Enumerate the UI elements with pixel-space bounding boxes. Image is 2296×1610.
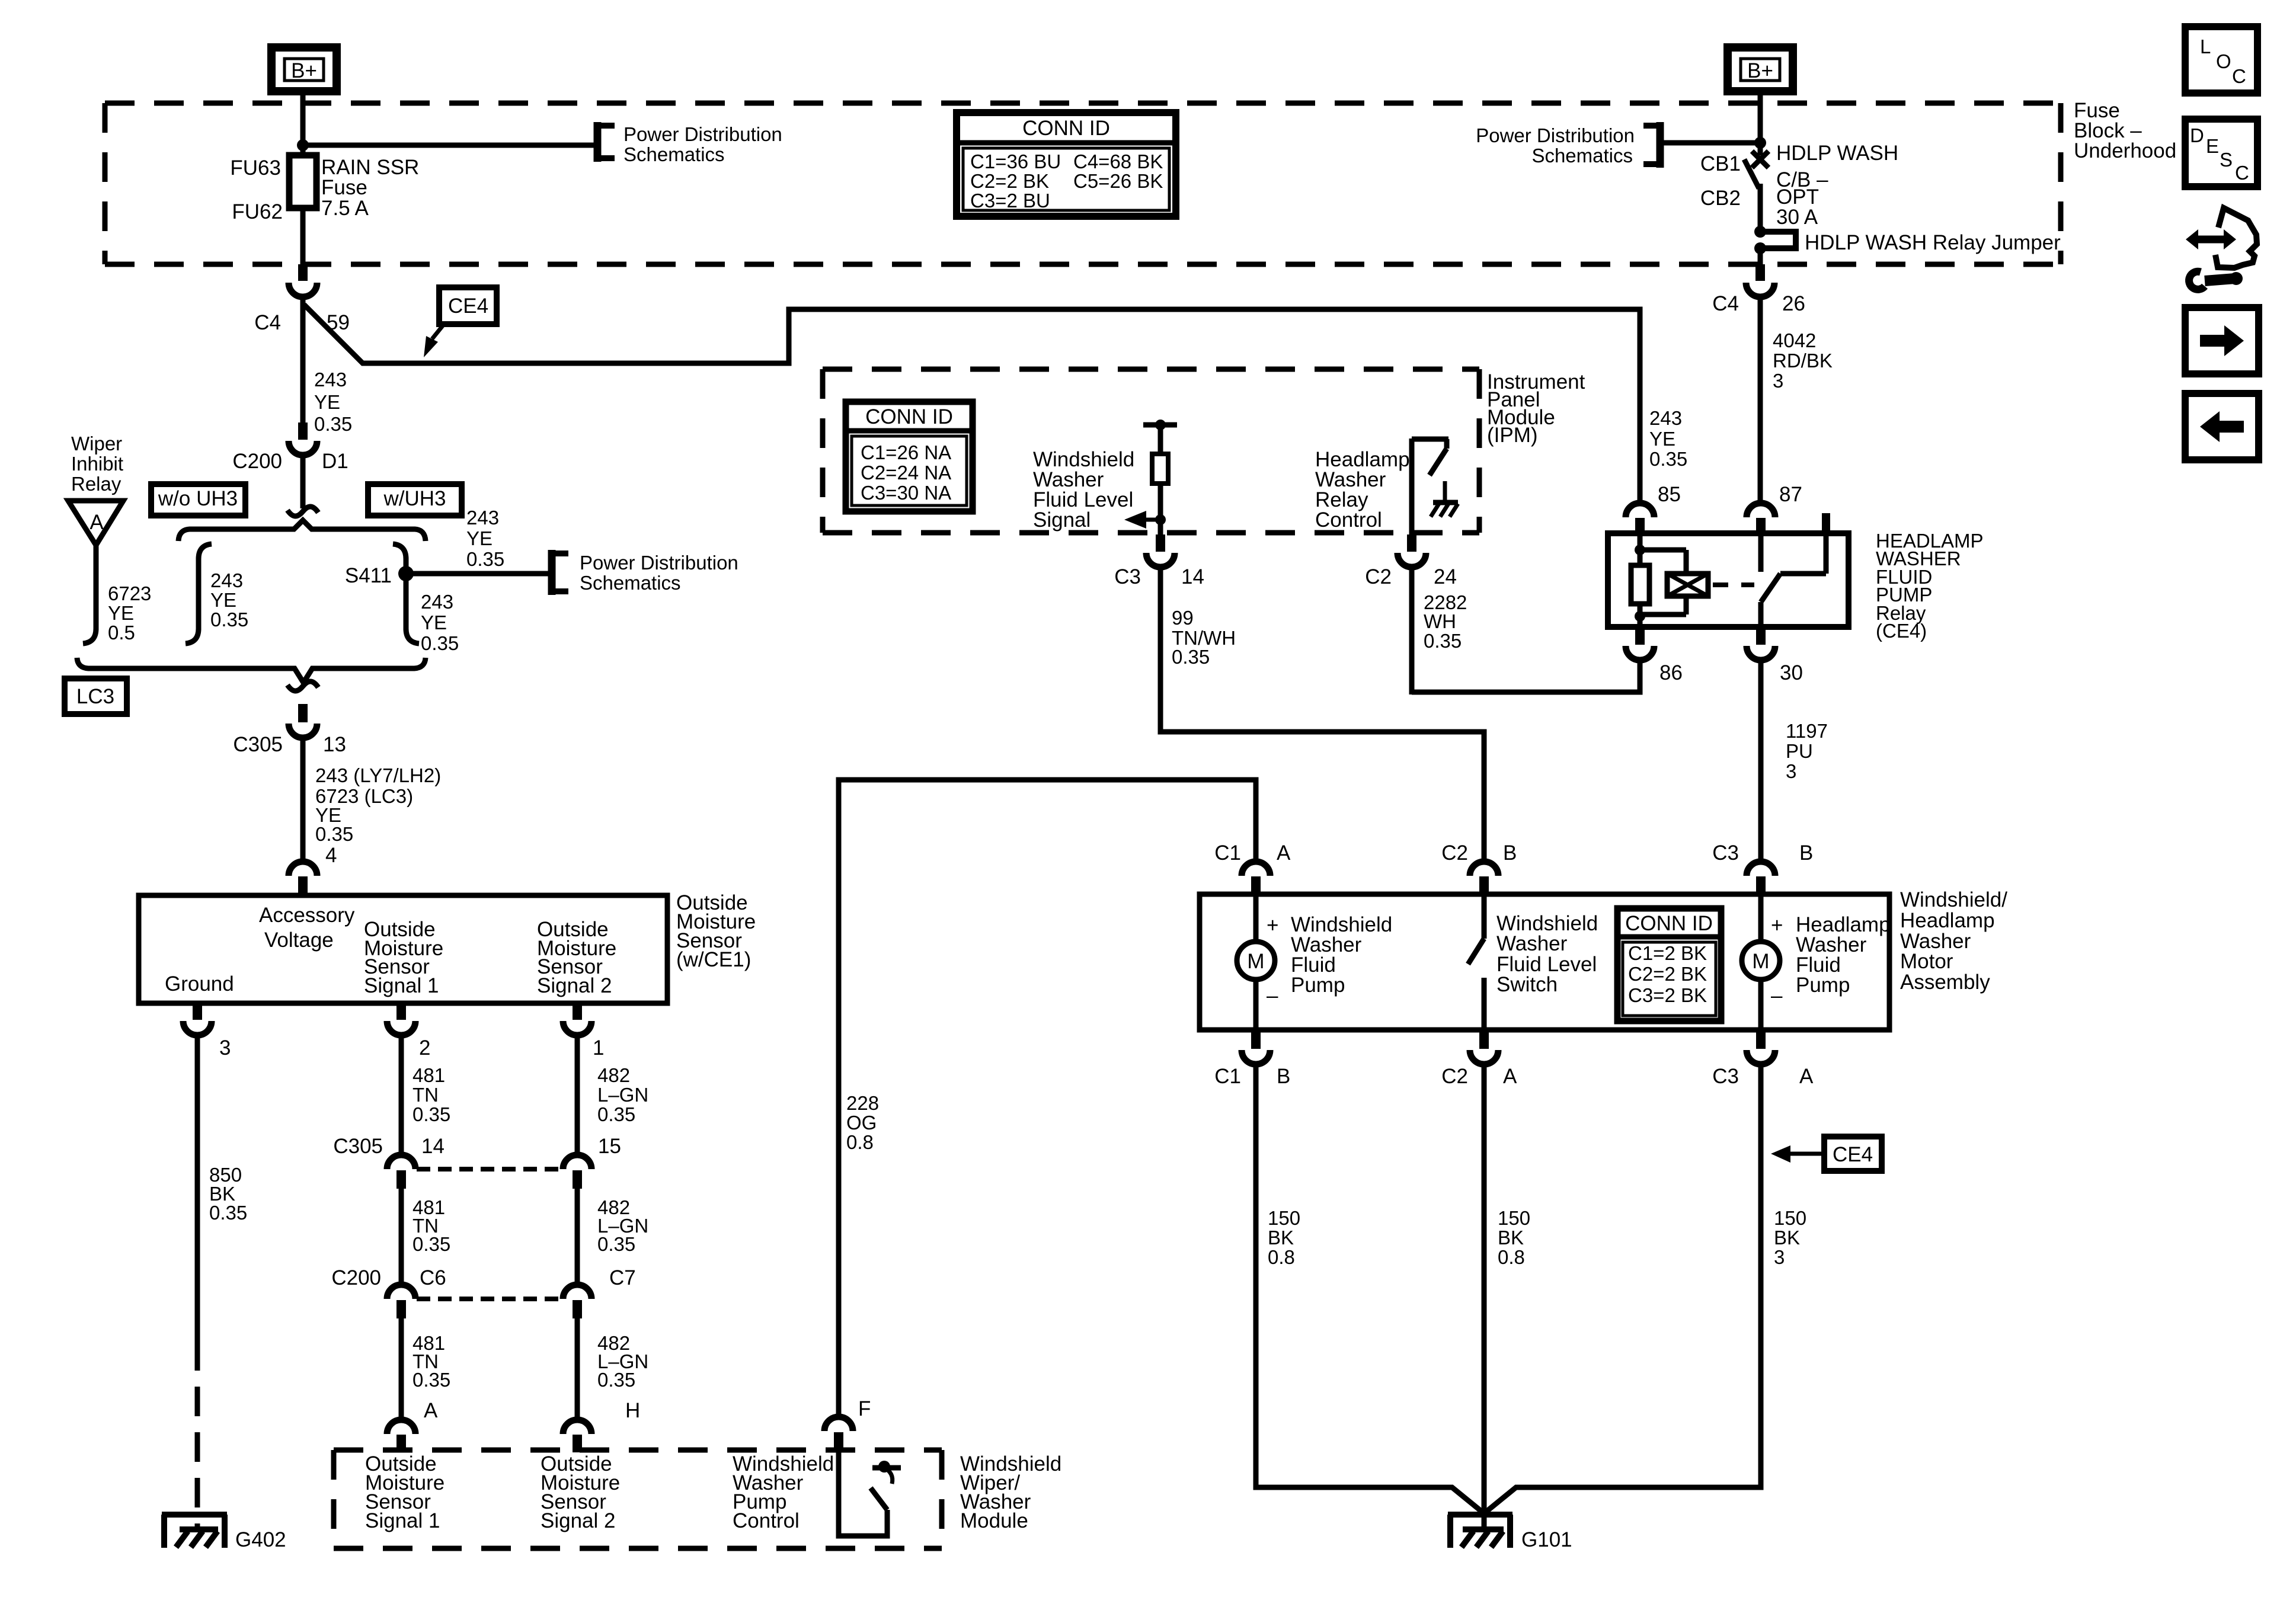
svg-text:Power Distribution: Power Distribution [623, 123, 782, 145]
branch w/o UH3 vertical [186, 544, 212, 644]
wire B+ left down [300, 92, 306, 155]
signal arrow fluid level [1124, 511, 1166, 529]
svg-text:L–GN: L–GN [597, 1084, 648, 1106]
option tag w/o UH3 [151, 484, 245, 516]
power feed B+ terminal left [271, 47, 337, 91]
svg-text:C305: C305 [233, 733, 283, 756]
wire 850 BK ground dashed [195, 1341, 200, 1529]
svg-text:0.8: 0.8 [1498, 1246, 1525, 1268]
svg-text:B: B [1799, 841, 1813, 865]
svg-text:Signal: Signal [1033, 508, 1091, 532]
svg-text:Relay: Relay [71, 473, 121, 495]
icon back arrow box [2185, 393, 2259, 460]
off-page connector Power Distribution Schematics right [1476, 122, 1660, 168]
svg-text:Schematics: Schematics [580, 572, 681, 594]
label wire 150 BK 0.8 left [1268, 1207, 1300, 1268]
svg-text:0.35: 0.35 [1172, 646, 1210, 668]
svg-text:0.35: 0.35 [597, 1103, 635, 1125]
svg-text:482: 482 [597, 1064, 630, 1086]
label wire 482 L-GN 0.35 c [597, 1332, 648, 1391]
svg-text:C3: C3 [1712, 841, 1739, 865]
svg-text:C5=26 BK: C5=26 BK [1073, 170, 1163, 192]
connector motor bottom C1 pin B [1214, 1030, 1290, 1088]
relay control driver switch in IPM [1412, 438, 1448, 534]
label wire 243 YE 0.35 relay coil feed [1649, 407, 1687, 470]
wire 2282 WH down from IPM [1409, 567, 1415, 694]
svg-text:HDLP WASH Relay Jumper: HDLP WASH Relay Jumper [1805, 231, 2061, 254]
wire 4042 RD/BK to relay 87 [1758, 296, 1763, 504]
svg-text:B+: B+ [291, 59, 317, 82]
label wire 243 YE 0.35 w/UH3 upper [466, 507, 504, 570]
svg-text:Windshield/: Windshield/ [1900, 888, 2007, 911]
connector motor bottom C3 pin A [1712, 1030, 1814, 1088]
svg-text:243: 243 [210, 569, 243, 591]
svg-text:3: 3 [1786, 760, 1796, 782]
svg-text:1: 1 [593, 1036, 604, 1060]
option tag LC3 [65, 678, 127, 714]
svg-text:0.35: 0.35 [421, 632, 459, 654]
svg-text:3: 3 [219, 1036, 231, 1060]
svg-text:G402: G402 [235, 1528, 286, 1551]
svg-text:YE: YE [466, 527, 493, 549]
svg-text:Voltage: Voltage [264, 929, 334, 952]
svg-text:TN: TN [412, 1084, 439, 1106]
motor assembly outside label [1900, 888, 2007, 994]
svg-text:A: A [1277, 841, 1291, 865]
connector relay pin 85 [1626, 483, 1681, 536]
svg-text:Assembly: Assembly [1900, 971, 1990, 994]
option tag w/UH3 [368, 484, 462, 516]
svg-text:Module: Module [960, 1509, 1028, 1532]
svg-text:0.8: 0.8 [846, 1131, 874, 1153]
connector sensor signal1 pin 2 [387, 1003, 430, 1060]
svg-text:G101: G101 [1521, 1528, 1572, 1551]
svg-text:B+: B+ [1747, 59, 1773, 82]
fuse FU63/FU62 RAIN SSR 7.5A [230, 155, 419, 223]
connector IPM C2 pin 24 [1365, 534, 1457, 588]
svg-text:7.5 A: 7.5 A [321, 197, 369, 220]
svg-text:0.35: 0.35 [209, 1202, 247, 1224]
wire 481 TN segment a [399, 1035, 404, 1156]
icon forward arrow box [2185, 308, 2259, 374]
svg-text:LC3: LC3 [76, 685, 114, 708]
label wire 481 TN 0.35 b [412, 1196, 450, 1255]
svg-text:Ground: Ground [165, 972, 234, 996]
label wire 243 YE 0.35 w/o UH3 [210, 569, 248, 630]
wire 150 BK fluid level switch to ground [1482, 1064, 1487, 1515]
svg-text:C3=2 BU: C3=2 BU [970, 190, 1050, 212]
svg-text:3: 3 [1773, 370, 1783, 392]
svg-text:Washer: Washer [1496, 932, 1568, 955]
svg-text:O: O [2216, 50, 2231, 72]
svg-text:H: H [625, 1399, 640, 1422]
label wire 6723 YE 0.5 [108, 582, 151, 644]
svg-text:D: D [2190, 124, 2204, 146]
svg-text:A: A [89, 511, 104, 534]
option break squiggle [287, 507, 318, 516]
ground G101 [1448, 1513, 1572, 1551]
svg-text:30: 30 [1780, 661, 1803, 684]
svg-text:B: B [1503, 841, 1517, 865]
wire C200 down to option split [300, 455, 306, 508]
svg-text:Pump: Pump [1291, 974, 1345, 997]
svg-text:85: 85 [1658, 483, 1681, 506]
svg-text:0.35: 0.35 [1424, 630, 1462, 652]
svg-text:F: F [858, 1397, 871, 1420]
wire 6723 from relay down [83, 545, 96, 644]
svg-text:C2=2 BK: C2=2 BK [970, 170, 1049, 192]
jumper HDLP WASH relay jumper [1754, 226, 2061, 254]
connector motor C1 pin A [1214, 841, 1291, 895]
wire fuse down to C4 [300, 208, 306, 265]
svg-text:Schematics: Schematics [623, 143, 725, 165]
wire 99 TN/WH to washer fluid switch [1160, 567, 1484, 860]
svg-text:YE: YE [1649, 428, 1675, 450]
relay HEADLAMP WASHER FLUID PUMP box [1608, 533, 1849, 627]
svg-text:Signal 1: Signal 1 [365, 1509, 440, 1532]
svg-text:C200: C200 [331, 1266, 381, 1289]
svg-text:Inhibit: Inhibit [71, 453, 123, 475]
washer pump control switch inside module [839, 1452, 901, 1536]
wire jumper to C4 [1758, 248, 1763, 265]
svg-text:D1: D1 [322, 450, 348, 473]
module internal labels [365, 1452, 834, 1532]
svg-text:30 A: 30 A [1776, 206, 1818, 229]
svg-text:Signal 1: Signal 1 [364, 974, 439, 997]
wire 482 L-GN segment c [575, 1318, 580, 1420]
label wire 1197 PU 3 [1786, 720, 1828, 782]
svg-text:150: 150 [1774, 1207, 1806, 1229]
svg-text:Schematics: Schematics [1531, 145, 1633, 167]
relay armature dashed link [1713, 582, 1754, 587]
windshield washer fluid level signal label [1033, 448, 1134, 532]
headlamp washer relay control label [1315, 448, 1410, 532]
svg-text:C1=26 NA: C1=26 NA [861, 441, 951, 463]
svg-text:6723: 6723 [108, 582, 151, 604]
svg-text:YE: YE [314, 391, 340, 413]
svg-text:0.35: 0.35 [1649, 448, 1687, 470]
windshield wiper washer module outside label [960, 1452, 1061, 1532]
IPM label [1487, 370, 1585, 447]
svg-text:0.35: 0.35 [597, 1233, 635, 1255]
wire B+ right down [1758, 92, 1763, 155]
ground G402 [162, 1515, 286, 1551]
svg-text:+: + [1267, 914, 1278, 937]
connector ground pin 3 [183, 1003, 231, 1060]
svg-text:243 (LY7/LH2): 243 (LY7/LH2) [315, 764, 441, 786]
icon vehicle double arrow [2186, 208, 2257, 268]
opening brace option bus [178, 520, 426, 541]
svg-text:0.35: 0.35 [210, 609, 248, 630]
svg-text:4: 4 [325, 844, 337, 867]
icon DESC box [2185, 119, 2257, 187]
svg-text:3: 3 [1774, 1246, 1785, 1268]
wire to power distribution right [1663, 140, 1760, 146]
svg-text:w/UH3: w/UH3 [383, 487, 446, 510]
svg-text:26: 26 [1782, 292, 1805, 315]
svg-text:243: 243 [421, 591, 453, 613]
svg-text:C1=2 BK: C1=2 BK [1628, 942, 1707, 964]
svg-text:4042: 4042 [1773, 329, 1816, 351]
svg-text:C6: C6 [420, 1266, 446, 1289]
wire C4 down to C200 [300, 296, 306, 423]
icon wrench [2189, 271, 2243, 289]
svg-text:PU: PU [1786, 740, 1813, 762]
svg-text:M: M [1752, 950, 1769, 973]
svg-text:C3=2 BK: C3=2 BK [1628, 984, 1707, 1006]
svg-text:481: 481 [412, 1064, 445, 1086]
svg-text:Fuse: Fuse [321, 176, 367, 199]
svg-text:FU62: FU62 [232, 200, 283, 223]
svg-text:Wiper: Wiper [71, 433, 122, 454]
svg-text:0.35: 0.35 [597, 1369, 635, 1391]
svg-text:Switch: Switch [1496, 973, 1558, 996]
svg-text:Power Distribution: Power Distribution [1476, 124, 1635, 146]
callout CE4 top [424, 287, 497, 357]
label wire 150 BK 0.8 center [1498, 1207, 1530, 1268]
option break squiggle below LC3 bus [287, 681, 318, 691]
connector body dashed link C305 [417, 1167, 562, 1172]
svg-text:243: 243 [314, 369, 347, 391]
connector sensor signal2 pin 1 [563, 1003, 604, 1060]
wire 481 TN segment b [399, 1189, 404, 1286]
svg-text:14: 14 [421, 1135, 445, 1158]
callout CE4 right [1771, 1137, 1882, 1171]
svg-text:CE4: CE4 [448, 295, 488, 318]
svg-text:Underhood: Underhood [2074, 139, 2176, 162]
svg-text:C1: C1 [1214, 841, 1241, 865]
svg-text:1197: 1197 [1786, 720, 1828, 742]
outside moisture sensor outside label [676, 891, 756, 971]
node junction right B+ [1754, 137, 1766, 149]
relay name label [1876, 530, 1984, 642]
svg-text:0.35: 0.35 [315, 823, 353, 845]
svg-text:C3: C3 [1114, 565, 1141, 588]
svg-text:(w/CE1): (w/CE1) [676, 948, 751, 971]
svg-text:C1=36 BU: C1=36 BU [970, 151, 1061, 172]
svg-text:C2=2 BK: C2=2 BK [1628, 963, 1707, 985]
label wire 243 YE 0.35 below S411 [421, 591, 459, 654]
svg-text:24: 24 [1434, 565, 1457, 588]
wire relay 30 down to headlamp pump [1758, 660, 1764, 860]
connector C200 pin D1 [232, 422, 348, 473]
svg-text:Signal 2: Signal 2 [537, 974, 612, 997]
svg-text:YE: YE [210, 589, 236, 611]
label wire 850 BK 0.35 [209, 1164, 247, 1224]
wire C305 down to sensor [300, 738, 306, 862]
label wire 2282 WH 0.35 [1424, 591, 1467, 652]
connector motor bottom C2 pin A [1441, 1030, 1517, 1088]
mini ground in IPM [1431, 481, 1458, 517]
svg-text:C: C [2235, 162, 2249, 184]
wire 482 L-GN segment a [575, 1035, 580, 1156]
label wire 228 OG 0.8 [846, 1092, 879, 1153]
CONN ID table motor assembly [1617, 908, 1721, 1021]
wire relay 86 to IPM C2 [1412, 660, 1640, 692]
svg-text:CB1: CB1 [1700, 152, 1741, 175]
svg-text:C7: C7 [609, 1266, 636, 1289]
windshield headlamp washer motor assembly box [1200, 894, 1889, 1030]
svg-text:C4: C4 [254, 311, 281, 334]
svg-text:CONN ID: CONN ID [865, 405, 953, 428]
svg-text:L: L [2200, 36, 2211, 57]
svg-text:C4=68 BK: C4=68 BK [1073, 151, 1163, 172]
svg-text:C3=30 NA: C3=30 NA [861, 482, 951, 504]
closing brace option bus [77, 658, 426, 683]
svg-text:150: 150 [1268, 1207, 1300, 1229]
Fuse Block label [2074, 99, 2176, 162]
svg-text:C200: C200 [232, 450, 282, 473]
svg-text:–: – [1771, 984, 1783, 1007]
wire 150 BK windshield pump to ground [1256, 1064, 1484, 1513]
svg-text:HDLP WASH: HDLP WASH [1776, 142, 1898, 165]
circuit breaker HDLP WASH CB1/CB2 [1700, 142, 1898, 232]
label wire 482 L-GN 0.35 a [597, 1064, 648, 1125]
svg-text:YE: YE [421, 612, 447, 633]
svg-text:99: 99 [1172, 607, 1194, 629]
svg-text:C3: C3 [1712, 1065, 1739, 1088]
svg-text:M: M [1247, 950, 1264, 973]
svg-text:A: A [424, 1399, 438, 1422]
node junction at fuse top [297, 139, 309, 151]
svg-text:C4: C4 [1712, 292, 1739, 315]
label wire 243 YE 0.35 upper [314, 369, 352, 435]
svg-text:Control: Control [733, 1509, 800, 1532]
connector pin 4 into sensor [289, 844, 337, 895]
svg-text:S411: S411 [345, 564, 392, 587]
svg-text:RD/BK: RD/BK [1773, 350, 1833, 372]
wiper inhibit relay triangle A [68, 501, 123, 545]
svg-text:BK: BK [1498, 1227, 1524, 1249]
svg-text:B: B [1277, 1065, 1290, 1088]
wire to power distribution left [303, 143, 597, 148]
svg-text:86: 86 [1659, 661, 1683, 684]
fuse block underhood dashed box [105, 103, 2061, 264]
connector motor C3 pin B [1712, 841, 1813, 895]
svg-text:243: 243 [1649, 407, 1682, 429]
connector module pin A [387, 1399, 438, 1452]
svg-text:2: 2 [419, 1036, 430, 1060]
wire branch 59 to CE4 page [304, 305, 1640, 504]
svg-text:CONN ID: CONN ID [1625, 912, 1713, 935]
connector module pin F [824, 1397, 871, 1452]
label wire 99 TN/WH 0.35 [1172, 607, 1236, 668]
svg-text:YE: YE [108, 602, 134, 624]
windshield washer fluid level switch [1468, 894, 1598, 1030]
svg-text:Headlamp: Headlamp [1900, 909, 1995, 932]
svg-text:(CE4): (CE4) [1876, 620, 1927, 642]
svg-text:0.35: 0.35 [412, 1233, 450, 1255]
svg-text:Control: Control [1315, 508, 1382, 532]
svg-text:0.35: 0.35 [412, 1369, 450, 1391]
svg-text:0.35: 0.35 [314, 413, 352, 435]
wire 482 L-GN segment b [575, 1189, 580, 1286]
svg-text:CB2: CB2 [1700, 187, 1741, 210]
svg-text:15: 15 [598, 1135, 621, 1158]
svg-text:C2: C2 [1441, 1065, 1468, 1088]
svg-text:0.5: 0.5 [108, 622, 135, 644]
svg-text:CONN ID: CONN ID [1022, 117, 1110, 140]
wiper inhibit relay label [71, 433, 123, 495]
svg-text:228: 228 [846, 1092, 879, 1114]
connector relay pin 86 [1626, 627, 1683, 684]
wire S411 to power distribution [406, 571, 549, 577]
connector module pin H [563, 1399, 640, 1452]
connector C4 pin 26 [1712, 264, 1805, 315]
connector C305 pins 14/15 [333, 1135, 621, 1189]
CONN ID table fuse block [957, 113, 1176, 216]
off-page connector Power Distribution Schematics left [597, 122, 782, 165]
svg-text:(IPM): (IPM) [1487, 424, 1538, 447]
label wire 150 BK 3 right [1774, 1207, 1806, 1268]
label wire 243 (LY7/LH2) 6723 (LC3) YE 0.35 [315, 764, 441, 845]
svg-text:FU63: FU63 [230, 156, 281, 180]
windshield wiper washer module dashed box [334, 1448, 942, 1453]
svg-text:BK: BK [1774, 1227, 1800, 1249]
connector body dashed link C200 [417, 1297, 562, 1301]
connector relay pin 87 [1747, 483, 1802, 536]
wire 850 BK ground solid [195, 1035, 200, 1341]
label wire 481 TN 0.35 a [412, 1064, 450, 1125]
svg-text:+: + [1771, 914, 1783, 937]
connector C4 pin 59 [254, 264, 350, 334]
connector C200 pins C6/C7 [331, 1266, 635, 1318]
svg-text:E: E [2206, 135, 2219, 157]
svg-text:S: S [2220, 149, 2233, 171]
connector relay pin 30 [1747, 627, 1803, 684]
svg-text:13: 13 [323, 733, 346, 756]
svg-text:C2: C2 [1365, 565, 1392, 588]
label wire 481 TN 0.35 c [412, 1332, 450, 1391]
svg-text:A: A [1503, 1065, 1517, 1088]
connector IPM C3 pin 14 [1114, 534, 1204, 588]
svg-text:0.8: 0.8 [1268, 1246, 1295, 1268]
power feed B+ terminal right [1728, 47, 1793, 91]
label wire 482 L-GN 0.35 b [597, 1196, 648, 1255]
svg-text:A: A [1799, 1065, 1814, 1088]
svg-text:CE4: CE4 [1833, 1143, 1873, 1166]
svg-text:Motor: Motor [1900, 950, 1953, 973]
svg-text:Pump: Pump [1796, 974, 1850, 997]
headlamp washer fluid pump motor M [1742, 894, 1891, 1030]
CONN ID table IPM [846, 402, 973, 511]
svg-text:–: – [1267, 984, 1278, 1007]
relay switch internals [1761, 513, 1830, 627]
svg-text:C305: C305 [333, 1135, 383, 1158]
relay coil internals [1631, 534, 1708, 627]
svg-text:0.35: 0.35 [412, 1103, 450, 1125]
instrument panel module dashed box [823, 367, 1479, 372]
connector C305 pin 13 [233, 704, 346, 756]
svg-text:WH: WH [1424, 610, 1456, 632]
branch w/UH3 vertical with S411 [393, 544, 419, 644]
svg-text:150: 150 [1498, 1207, 1530, 1229]
svg-text:C2=24 NA: C2=24 NA [861, 462, 951, 484]
icon LOC box [2185, 27, 2257, 93]
splice S411 [345, 564, 414, 587]
svg-text:243: 243 [466, 507, 499, 529]
svg-text:C2: C2 [1441, 841, 1468, 865]
wire 228 OG from module F up and over to washer pump [839, 780, 1256, 1417]
svg-text:14: 14 [1181, 565, 1204, 588]
svg-text:Signal 2: Signal 2 [541, 1509, 615, 1532]
svg-text:Accessory: Accessory [259, 904, 355, 927]
svg-text:OG: OG [846, 1112, 877, 1134]
svg-text:C1: C1 [1214, 1065, 1241, 1088]
connector motor C2 pin B [1441, 841, 1517, 895]
svg-text:87: 87 [1779, 483, 1802, 506]
svg-text:BK: BK [1268, 1227, 1294, 1249]
